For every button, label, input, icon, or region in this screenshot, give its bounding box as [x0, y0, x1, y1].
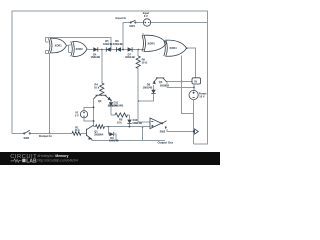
resistor R5 horizontal: [111, 113, 130, 125]
wire drop from base rail down to output column: [182, 82, 194, 114]
resistor R6 vertical: [136, 50, 147, 122]
wire V1 top bracket: [84, 107, 94, 110]
diode D11 vertical: [109, 100, 123, 115]
gate XOR2: [71, 41, 87, 56]
svg-text:0 V: 0 V: [144, 14, 148, 18]
svg-text:10 Ω: 10 Ω: [142, 61, 148, 65]
gate XOR3: [142, 35, 167, 51]
wire XOR4 drop to Q3 base rail: [181, 56, 183, 82]
svg-text:10 V: 10 V: [199, 94, 205, 98]
wire R6 column to op-amp minus input: [138, 121, 150, 123]
output flag triangle: [195, 129, 199, 134]
transistor Q1 NPN: [87, 125, 104, 139]
resistor R1 horizontal: [72, 125, 81, 135]
svg-text:1N914B: 1N914B: [114, 103, 124, 107]
bottom rail left: [12, 132, 24, 134]
svg-text:SW2: SW2: [24, 136, 30, 140]
node dot at XOR4 output: [186, 48, 188, 50]
svg-text:1N914B: 1N914B: [143, 86, 153, 90]
node dot at R6 branch: [138, 49, 140, 51]
svg-text:5V: 5V: [194, 79, 197, 83]
diode D6 points left: [113, 39, 123, 52]
svg-text:XOR1: XOR1: [55, 43, 63, 47]
diode D10 vertical: [127, 115, 142, 127]
svg-text:1N914B: 1N914B: [103, 42, 113, 46]
svg-text:Input In: Input In: [116, 16, 127, 20]
switch SW3 at op-amp output: [160, 121, 167, 134]
svg-text:Output Out: Output Out: [158, 140, 174, 144]
node dot at input riser: [122, 49, 124, 51]
voltage source V2 Power: [189, 90, 207, 99]
wire Q3 base rail: [167, 81, 192, 83]
wire XOR1 to XOR2 bracket: [67, 45, 69, 47]
resistor R4 vertical: [94, 50, 104, 96]
node dot below Q2 emitter: [110, 100, 112, 102]
node dot: [110, 49, 112, 51]
wire bottom riser to mid rail: [142, 127, 144, 141]
wire below power source to bottom corner: [193, 100, 195, 144]
transistor Q2 rotated base-up: [94, 95, 118, 107]
svg-text:Output In: Output In: [39, 134, 52, 138]
gate XOR4: [164, 40, 187, 56]
mid rail with R2: [94, 125, 151, 129]
svg-text:XOR3: XOR3: [148, 41, 156, 45]
svg-text:1N914B: 1N914B: [125, 55, 135, 59]
svg-text:LAB: LAB: [26, 158, 37, 164]
node dot: [181, 81, 183, 83]
svg-text:SW1: SW1: [129, 24, 135, 28]
node dot D10 joint: [129, 126, 131, 128]
switch SW1: [129, 20, 136, 28]
voltage source V1: [75, 111, 88, 118]
switch SW2: [24, 130, 31, 139]
gate XOR1: [49, 38, 67, 53]
wire diode row: [87, 49, 145, 51]
gate XOR3 input stub: [142, 33, 144, 36]
svg-text:Q2: Q2: [98, 99, 102, 103]
node flag box: [192, 78, 201, 91]
wire XOR4 output to power column: [187, 48, 196, 78]
svg-text:2N3904: 2N3904: [160, 83, 170, 87]
diode D4: [91, 47, 101, 59]
voltage source V3 Input: [143, 11, 151, 26]
wire to Q1 base: [81, 132, 87, 134]
diode D9 branch: [109, 127, 119, 143]
diode D5 points left: [103, 39, 113, 52]
svg-text:1N914B: 1N914B: [113, 42, 123, 46]
svg-text:10 k: 10 k: [75, 128, 81, 132]
wire from Q3 area to power stem: [167, 86, 194, 88]
node dot at R4 branch: [101, 49, 103, 51]
svg-text:Q3: Q3: [159, 80, 163, 84]
wire V1 bottom bracket: [84, 118, 94, 121]
wire Q2 left leg column: [93, 99, 95, 127]
svg-text:1N914B: 1N914B: [91, 55, 101, 59]
wire XOR1 input column down to bottom rail: [46, 51, 50, 134]
wire input stubs: [46, 41, 49, 43]
wire input row left: [123, 22, 131, 24]
svg-text:2N3904: 2N3904: [94, 132, 104, 136]
wire source to right frame: [151, 22, 208, 24]
wire rail continues: [30, 132, 72, 134]
svg-text:10 k: 10 k: [117, 120, 123, 124]
svg-text:1N914B: 1N914B: [132, 121, 142, 125]
svg-text:SW3: SW3: [160, 129, 166, 133]
wire outer loop left top right: [12, 11, 207, 144]
svg-text:XOR4: XOR4: [170, 46, 178, 50]
svg-text:5 V: 5 V: [75, 113, 79, 117]
op-amp OA1: [150, 118, 162, 129]
wire switch to source: [136, 22, 143, 24]
wire SW3 to output node: [167, 129, 193, 132]
wire XOR1 feedback loop: [46, 38, 112, 50]
node dot on power stem: [193, 87, 195, 89]
wire Q3 right leg down to power stem wire: [166, 82, 168, 87]
wire Q1 emitter to bottom wire: [92, 140, 165, 141]
svg-text:XOR2: XOR2: [76, 47, 84, 51]
node dot D9 branch: [108, 126, 110, 128]
diode D8 below Q3 emitter: [143, 82, 156, 93]
diode D7: [125, 47, 135, 59]
svg-text:10 k: 10 k: [94, 86, 100, 90]
watermark bar: [0, 152, 220, 165]
node dot output: [193, 131, 195, 133]
svg-text:1N914B: 1N914B: [109, 139, 119, 143]
svg-text:http://circuitlab.com/c4k3r4: http://circuitlab.com/c4k3r4: [38, 158, 78, 162]
transistor Q3 rotated bar-top NPN: [152, 78, 169, 87]
wire input riser: [122, 23, 124, 50]
node dot on bottom rail: [49, 133, 51, 135]
wire Q3 emitter path down to R6 column: [138, 94, 153, 101]
